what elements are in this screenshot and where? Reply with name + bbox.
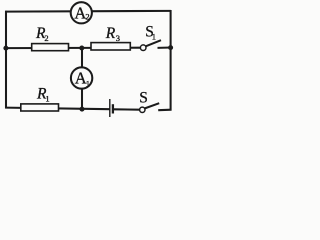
ammeter A2: [71, 2, 92, 23]
label R1: [36, 85, 50, 103]
wire bottom rail right segment after switch S: [158, 109, 171, 112]
wire A1 vertical branch: [81, 48, 83, 109]
svg-text:3: 3: [116, 33, 120, 43]
svg-text:2: 2: [85, 12, 89, 22]
svg-text:2: 2: [44, 33, 48, 43]
svg-text:1: 1: [86, 78, 90, 88]
switch S1 terminal: [140, 45, 146, 51]
switch S1 lever: [146, 40, 161, 46]
wire right border rail: [170, 10, 172, 111]
svg-text:S: S: [139, 90, 148, 107]
node junction middle rail to A1 branch: [79, 46, 84, 51]
wire bottom rail battery-to-switch segment: [113, 108, 140, 110]
resistor R2: [32, 44, 69, 51]
node junction right end of middle rail: [168, 45, 173, 50]
ammeter A1: [71, 67, 92, 88]
node junction A1 branch to bottom rail: [80, 107, 85, 112]
wire left border rail: [5, 11, 7, 109]
switch S lever: [145, 103, 159, 108]
wire top border rail: [5, 10, 171, 13]
node junction left end of middle rail: [3, 46, 8, 51]
label R3: [105, 25, 120, 43]
battery positive plate (long): [109, 99, 111, 117]
resistor R3: [91, 43, 130, 50]
wire middle rail through R2 and R3: [6, 47, 141, 49]
svg-text:1: 1: [45, 93, 49, 103]
battery negative plate (short): [112, 104, 114, 113]
wire middle rail right of switch S1: [158, 46, 172, 48]
label R2: [35, 25, 49, 43]
switch S terminal: [140, 107, 145, 112]
resistor R1: [21, 104, 59, 111]
label S1: [145, 24, 156, 42]
wire bottom rail left segment through R1: [5, 108, 110, 110]
svg-text:1: 1: [152, 31, 156, 41]
svg-text:R: R: [105, 25, 116, 42]
